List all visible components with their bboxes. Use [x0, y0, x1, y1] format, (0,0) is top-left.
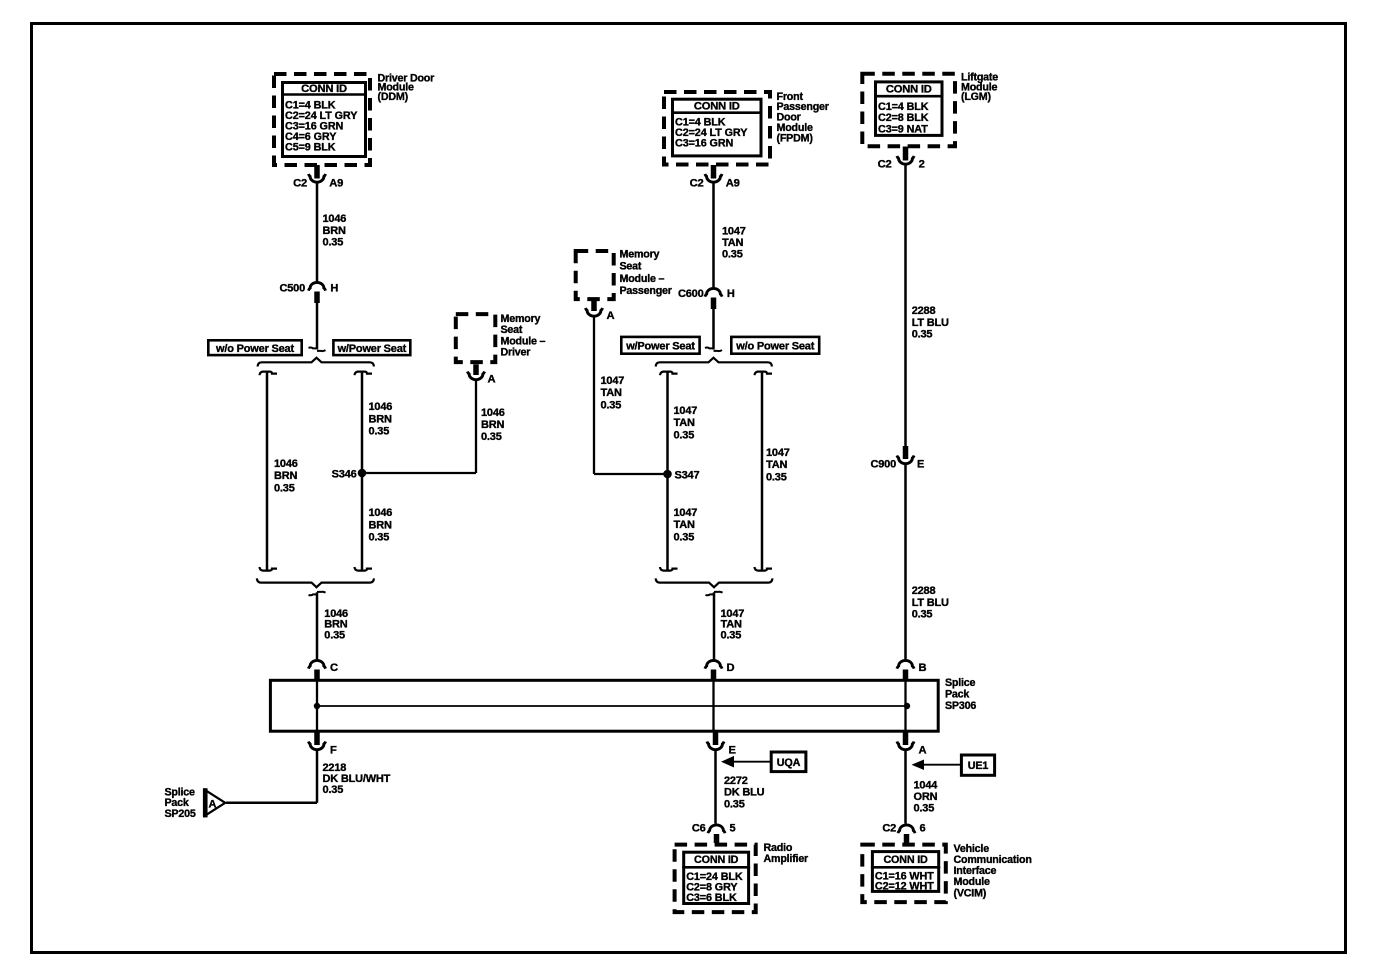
svg-text:C3=9 NAT: C3=9 NAT	[878, 123, 928, 135]
svg-text:CONN ID: CONN ID	[694, 854, 739, 866]
svg-text:C2: C2	[878, 158, 892, 170]
svg-text:C2: C2	[293, 177, 307, 189]
svg-text:H: H	[727, 288, 735, 300]
svg-text:A: A	[607, 310, 615, 322]
svg-text:1047: 1047	[722, 226, 746, 238]
svg-text:CONN ID: CONN ID	[886, 84, 932, 96]
svg-text:1047: 1047	[674, 507, 698, 519]
svg-text:0.35: 0.35	[323, 784, 344, 796]
svg-text:0.35: 0.35	[912, 609, 933, 621]
svg-text:(LGM): (LGM)	[961, 91, 992, 103]
svg-text:C1=4 BLK: C1=4 BLK	[878, 101, 929, 113]
svg-text:1044: 1044	[914, 780, 939, 792]
svg-text:LT BLU: LT BLU	[912, 317, 949, 329]
svg-text:B: B	[919, 662, 927, 674]
svg-text:C2=12 WHT: C2=12 WHT	[875, 881, 934, 893]
svg-text:F: F	[330, 745, 337, 757]
svg-text:1046: 1046	[369, 401, 393, 413]
svg-text:A: A	[919, 745, 927, 757]
svg-text:A9: A9	[726, 177, 740, 189]
svg-text:ORN: ORN	[914, 791, 938, 803]
svg-text:BRN: BRN	[369, 519, 392, 531]
svg-text:w/o Power Seat: w/o Power Seat	[215, 343, 294, 355]
svg-text:1046: 1046	[481, 407, 505, 419]
svg-text:Module –: Module –	[620, 273, 665, 285]
svg-text:w/Power Seat: w/Power Seat	[625, 340, 695, 352]
svg-text:C3=16 GRN: C3=16 GRN	[675, 137, 734, 149]
svg-text:Memory: Memory	[620, 248, 660, 260]
svg-text:1046: 1046	[369, 507, 393, 519]
svg-text:0.35: 0.35	[481, 431, 502, 443]
svg-text:CONN ID: CONN ID	[301, 83, 347, 95]
svg-text:1046: 1046	[274, 458, 298, 470]
svg-text:LT BLU: LT BLU	[912, 597, 949, 609]
svg-text:TAN: TAN	[766, 459, 787, 471]
svg-text:BRN: BRN	[369, 413, 392, 425]
svg-text:0.35: 0.35	[766, 471, 787, 483]
svg-text:0.35: 0.35	[369, 532, 390, 544]
svg-text:BRN: BRN	[481, 419, 504, 431]
svg-text:UE1: UE1	[968, 760, 989, 772]
svg-text:(DDM): (DDM)	[378, 91, 409, 103]
svg-text:TAN: TAN	[601, 387, 622, 399]
svg-text:BRN: BRN	[274, 470, 297, 482]
svg-text:D: D	[727, 662, 735, 674]
svg-text:TAN: TAN	[674, 417, 695, 429]
svg-text:0.35: 0.35	[914, 802, 935, 814]
svg-text:C3=6 BLK: C3=6 BLK	[686, 892, 737, 904]
svg-text:Passenger: Passenger	[620, 285, 672, 297]
svg-text:1046: 1046	[323, 213, 347, 225]
svg-text:2288: 2288	[912, 305, 936, 317]
svg-text:C2: C2	[690, 177, 704, 189]
svg-text:0.35: 0.35	[724, 798, 745, 810]
svg-text:S346: S346	[332, 469, 357, 481]
svg-text:H: H	[330, 282, 338, 294]
svg-text:w/o Power Seat: w/o Power Seat	[735, 340, 814, 352]
svg-text:Amplifier: Amplifier	[764, 853, 809, 865]
svg-text:TAN: TAN	[722, 237, 743, 249]
svg-text:Seat: Seat	[620, 261, 642, 273]
svg-text:1047: 1047	[766, 447, 790, 459]
svg-text:A9: A9	[329, 177, 343, 189]
svg-text:E: E	[917, 459, 924, 471]
svg-text:0.35: 0.35	[722, 249, 743, 261]
svg-text:C2: C2	[882, 823, 896, 835]
svg-text:0.35: 0.35	[323, 237, 344, 249]
svg-text:0.35: 0.35	[274, 482, 295, 494]
svg-text:0.35: 0.35	[369, 426, 390, 438]
svg-text:(VCIM): (VCIM)	[954, 887, 987, 899]
svg-text:C6: C6	[692, 823, 706, 835]
svg-text:A: A	[209, 798, 217, 810]
svg-text:CONN ID: CONN ID	[883, 854, 928, 866]
svg-text:SP205: SP205	[165, 808, 196, 820]
svg-text:Driver: Driver	[501, 346, 531, 358]
svg-text:w/Power Seat: w/Power Seat	[337, 343, 407, 355]
svg-text:C: C	[330, 662, 338, 674]
svg-text:UQA: UQA	[777, 757, 801, 769]
svg-text:0.35: 0.35	[601, 399, 622, 411]
svg-text:A: A	[488, 374, 496, 386]
svg-text:C5=9 BLK: C5=9 BLK	[285, 142, 336, 154]
svg-text:2: 2	[919, 158, 925, 170]
svg-text:0.35: 0.35	[674, 429, 695, 441]
svg-text:C2=8 BLK: C2=8 BLK	[878, 112, 929, 124]
svg-text:C900: C900	[871, 459, 897, 471]
svg-text:1047: 1047	[674, 405, 698, 417]
svg-text:5: 5	[730, 823, 736, 835]
svg-text:S347: S347	[675, 470, 700, 482]
svg-text:TAN: TAN	[674, 519, 695, 531]
svg-text:0.35: 0.35	[324, 629, 345, 641]
svg-text:0.35: 0.35	[674, 531, 695, 543]
svg-text:C500: C500	[280, 282, 306, 294]
svg-text:E: E	[729, 745, 737, 757]
svg-text:1047: 1047	[601, 375, 625, 387]
svg-text:2288: 2288	[912, 585, 936, 597]
svg-text:DK BLU: DK BLU	[724, 787, 765, 799]
svg-text:Splice: Splice	[945, 677, 976, 689]
svg-text:0.35: 0.35	[912, 329, 933, 341]
svg-text:BRN: BRN	[323, 225, 346, 237]
svg-text:0.35: 0.35	[721, 629, 742, 641]
svg-text:CONN ID: CONN ID	[694, 100, 740, 112]
svg-text:SP306: SP306	[945, 700, 976, 712]
svg-text:C600: C600	[678, 288, 704, 300]
svg-text:2272: 2272	[724, 775, 748, 787]
svg-text:6: 6	[920, 823, 926, 835]
svg-text:Pack: Pack	[945, 688, 969, 700]
svg-text:(FPDM): (FPDM)	[777, 132, 814, 144]
